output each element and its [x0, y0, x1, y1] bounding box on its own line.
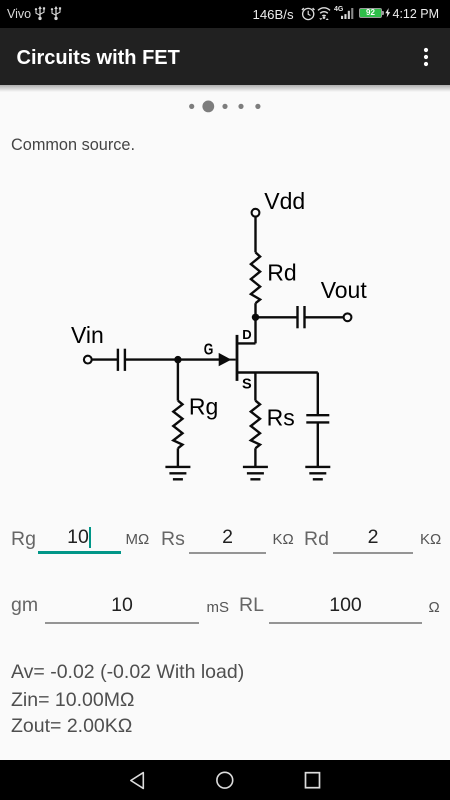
svg-text:D: D: [242, 327, 251, 342]
alarm clock icon: [301, 6, 316, 21]
svg-text:Rs: Rs: [267, 405, 295, 431]
svg-text:Vdd: Vdd: [264, 188, 305, 214]
svg-text:G: G: [204, 342, 214, 359]
usb icon 2: [50, 5, 62, 21]
recents icon: [304, 771, 322, 790]
ground at Rg: [165, 467, 190, 479]
wifi icon: [316, 5, 332, 21]
label Vout: [321, 277, 368, 303]
charging bolt: [385, 8, 391, 18]
wire source node to Rs: [254, 373, 256, 401]
input row 2: [11, 596, 38, 616]
wire down to Cs: [317, 373, 319, 415]
ground at Rs: [243, 467, 268, 479]
pin label S: [242, 377, 252, 393]
capacitor Cin: [118, 349, 125, 371]
pin label G: [204, 342, 214, 359]
wire Cs to ground: [317, 423, 319, 467]
app bar shadow: [0, 85, 450, 92]
resistor Rd: [251, 252, 260, 303]
resistor Rg: [173, 401, 182, 449]
terminal Vout: [344, 313, 352, 321]
wire Rd to drain node: [254, 303, 256, 343]
battery 92: [359, 8, 381, 17]
4G + signal bars: [334, 6, 343, 13]
nav bar: [0, 760, 450, 800]
input row 1: [11, 530, 36, 550]
label Rs: [267, 405, 295, 431]
caption: [11, 137, 135, 153]
view pager dots: [180, 98, 270, 116]
wire Vdd to Rd: [254, 217, 256, 253]
capacitor Cout: [298, 306, 305, 328]
svg-text:Vout: Vout: [321, 277, 368, 303]
label Rg: [189, 394, 218, 420]
label Rd: [267, 260, 296, 286]
wire drain node to Cout: [256, 316, 298, 318]
pin label D: [242, 327, 251, 342]
wire source lead to Cs: [256, 371, 318, 373]
terminal Vdd: [252, 209, 260, 217]
wire Cin to gate: [125, 358, 222, 360]
resistor Rs: [251, 401, 260, 449]
app bar: [0, 28, 450, 85]
label Vdd: [264, 188, 305, 214]
svg-text:Rd: Rd: [267, 260, 296, 286]
wire Vin to Cin: [92, 358, 118, 360]
node gate junction: [174, 356, 181, 363]
svg-text:S: S: [242, 377, 252, 393]
overflow menu icon: [419, 43, 433, 71]
svg-text:Rg: Rg: [189, 394, 218, 420]
wire gate node to Rg: [177, 360, 179, 401]
wire Rs to ground: [254, 448, 256, 467]
node drain junction: [252, 314, 259, 321]
status bar: [0, 0, 450, 28]
back icon: [128, 770, 146, 791]
terminal Vin: [84, 356, 92, 364]
label Vin: [71, 322, 104, 348]
results: [11, 663, 244, 683]
wire Cout to Vout terminal: [305, 316, 343, 318]
transistor Q1 JFET: [219, 335, 256, 381]
home icon: [216, 771, 234, 790]
wire Rg to ground: [177, 448, 179, 467]
capacitor Cs bypass: [306, 415, 329, 422]
usb icon 1: [34, 5, 46, 21]
ground at Cs: [305, 467, 330, 479]
svg-text:Vin: Vin: [71, 322, 104, 348]
